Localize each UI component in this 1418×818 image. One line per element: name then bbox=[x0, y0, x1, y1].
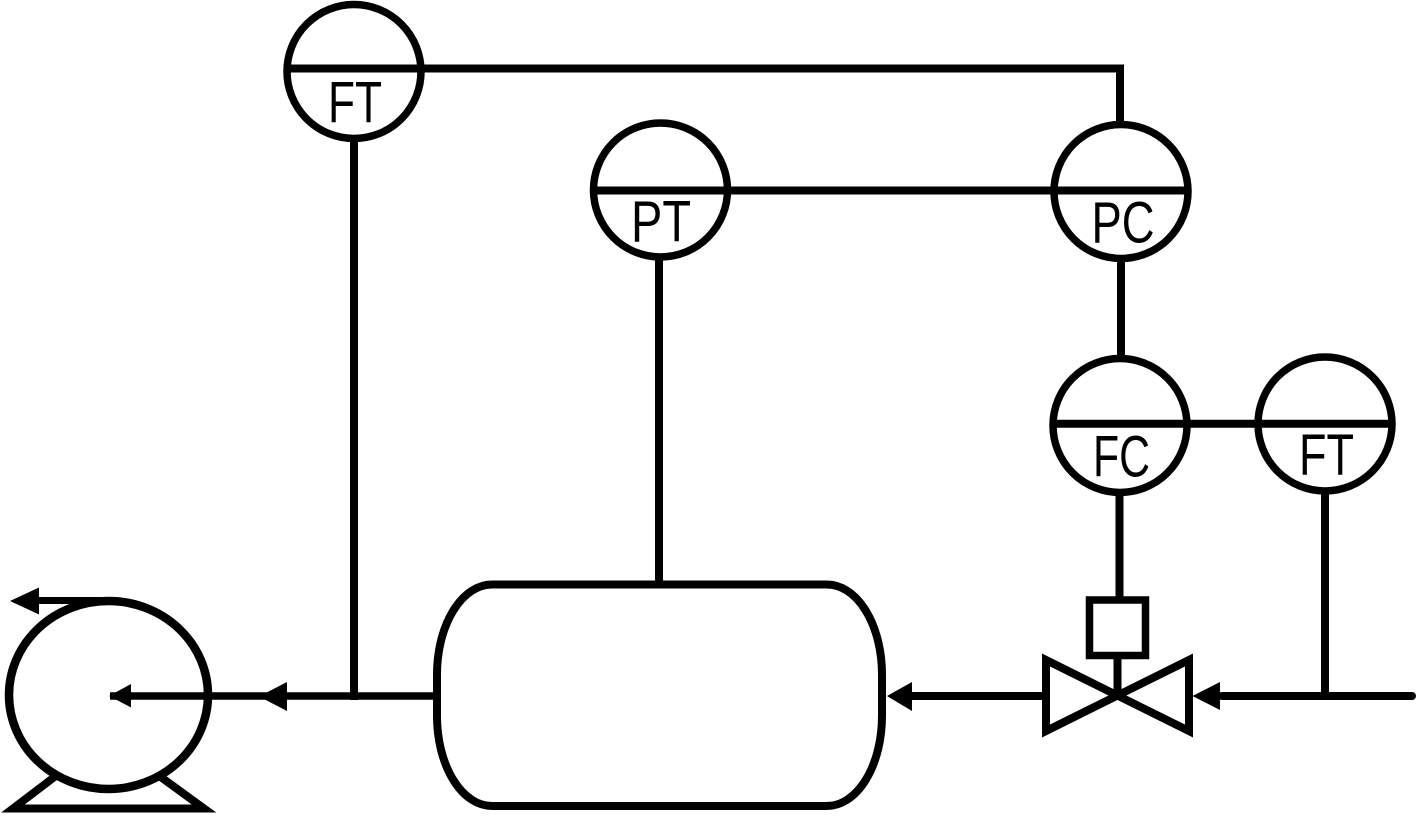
instrument bubble PT bbox=[594, 123, 728, 257]
arrow on pipe left of FT junction bbox=[259, 682, 287, 711]
arrow into pump center bbox=[109, 684, 131, 708]
pipe vessel to pump bbox=[110, 692, 434, 700]
vessel V1 bbox=[437, 585, 882, 807]
redraw PC divider over circle fill bbox=[1055, 187, 1190, 195]
redraw FC divider over circle fill bbox=[1054, 420, 1186, 428]
instrument bubble FT2 bbox=[1258, 357, 1392, 491]
signal line FC to FT2 bbox=[1054, 420, 1391, 428]
pump base bbox=[13, 775, 204, 809]
valve actuator square bbox=[1090, 600, 1146, 656]
wire PC to FC bbox=[1117, 256, 1125, 360]
pump P1 body bbox=[9, 601, 208, 789]
svg-text:FT: FT bbox=[1299, 423, 1354, 488]
instrument bubble FC bbox=[1053, 359, 1187, 493]
valve stem bbox=[1114, 655, 1122, 697]
instrument bubble FT1 bbox=[287, 5, 421, 139]
pump discharge arrow bbox=[10, 588, 39, 615]
pipe from right edge to valve bbox=[1222, 692, 1412, 700]
redraw FT1 divider over circle fill bbox=[288, 65, 421, 73]
redraw FT2 divider over circle fill bbox=[1259, 420, 1391, 428]
arrow into vessel bbox=[887, 682, 912, 711]
control valve body (bowtie) bbox=[1046, 660, 1189, 731]
wire PT to vessel top bbox=[655, 253, 663, 585]
arrow into valve bbox=[1193, 682, 1221, 710]
svg-text:PT: PT bbox=[631, 190, 691, 255]
redraw PT divider over circle fill bbox=[595, 187, 726, 195]
pipe valve to vessel bbox=[905, 692, 1048, 700]
signal line PT to PC bbox=[595, 187, 1190, 195]
svg-text:FT: FT bbox=[328, 71, 382, 136]
svg-text:FC: FC bbox=[1093, 425, 1150, 490]
wire FT2 to bottom pipe bbox=[1321, 489, 1329, 700]
instrument bubble PC bbox=[1054, 125, 1188, 259]
pump discharge line bbox=[20, 597, 112, 604]
wire FC to valve actuator bbox=[1116, 490, 1124, 600]
signal line FT1 divider to PC top bbox=[288, 69, 1120, 124]
wire FT1 to bottom pipe bbox=[350, 138, 358, 700]
svg-text:PC: PC bbox=[1092, 191, 1155, 256]
